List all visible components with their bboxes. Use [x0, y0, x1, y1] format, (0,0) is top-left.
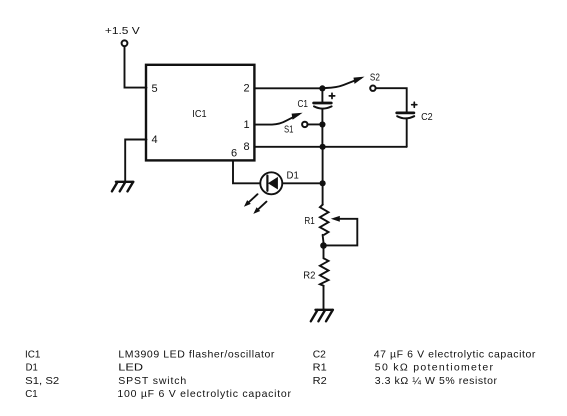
svg-text:3.3 kΩ ¼ W 5% resistor: 3.3 kΩ ¼ W 5% resistor [375, 375, 498, 387]
wire pin 6 to LED [233, 160, 260, 183]
svg-text:8: 8 [244, 141, 250, 153]
parts list column 1 [25, 348, 59, 400]
wire node C to node D [322, 150, 324, 180]
svg-text:6: 6 [231, 147, 237, 159]
ground bottom [311, 310, 333, 322]
parts list column 4 [374, 348, 536, 386]
svg-text:R1: R1 [304, 216, 315, 227]
switch S2 arrowhead [354, 77, 365, 84]
wire node E to R2 [323, 249, 325, 258]
wire LED to node D [282, 182, 319, 184]
ground left [112, 182, 133, 192]
svg-text:C1: C1 [298, 99, 309, 110]
svg-text:LED: LED [118, 362, 143, 374]
node E junction [320, 242, 327, 249]
wire pin 2 to node A [254, 87, 319, 89]
wire node D to R1 [322, 186, 324, 204]
C2 plus sign [412, 102, 417, 107]
switch S1 arrowhead [292, 113, 303, 120]
wire C2 to bottom rail [406, 120, 408, 147]
resistor R2 [320, 258, 329, 286]
svg-text:47 µF 6 V electrolytic capacit: 47 µF 6 V electrolytic capacitor [374, 348, 536, 360]
svg-text:4: 4 [152, 134, 158, 146]
parts list column 2 [117, 348, 291, 400]
svg-text:C1: C1 [25, 388, 38, 400]
R1 wiper wire [327, 219, 357, 246]
node A junction [319, 85, 325, 91]
svg-text:100 µF 6 V electrolytic capac: 100 µF 6 V electrolytic capacitor [117, 388, 291, 400]
wire pin 4 to ground [125, 140, 146, 182]
svg-text:IC1: IC1 [25, 348, 41, 360]
bottom rail (pin 8 wire) [254, 146, 406, 148]
parts list column 3 [313, 348, 327, 386]
supply terminal [122, 40, 128, 46]
switch S1 contact [302, 122, 307, 127]
wire R1 to node E [322, 235, 325, 243]
capacitor C2 [397, 113, 415, 118]
svg-text:R2: R2 [313, 375, 327, 387]
svg-text:C2: C2 [313, 348, 326, 360]
svg-text:50 kΩ potentiometer: 50 kΩ potentiometer [375, 362, 494, 374]
capacitor C1 [314, 103, 332, 109]
resistor R1 (potentiometer element) [320, 205, 329, 235]
svg-text:D1: D1 [287, 171, 299, 182]
wire supply to pin 5 [125, 47, 147, 88]
svg-text:5: 5 [152, 83, 158, 95]
LED D1 [260, 172, 282, 194]
svg-text:S2: S2 [370, 72, 380, 83]
node C junction on bottom rail [320, 144, 326, 150]
svg-text:S1: S1 [284, 125, 294, 136]
wire node A to C1 [321, 92, 323, 102]
node D junction [320, 180, 326, 186]
wire C1 to node B [321, 110, 323, 122]
svg-text:R1: R1 [313, 362, 327, 374]
svg-text:C2: C2 [421, 112, 433, 123]
svg-text:SPST switch: SPST switch [118, 375, 186, 387]
svg-text:LM3909 LED flasher/oscillator: LM3909 LED flasher/oscillator [118, 348, 275, 360]
svg-text:2: 2 [244, 83, 250, 95]
svg-text:IC1: IC1 [192, 109, 206, 120]
switch S2 contact [370, 86, 375, 91]
svg-text:1: 1 [244, 119, 250, 131]
wire S1 contact to node B [308, 123, 319, 125]
node B junction [319, 121, 325, 127]
wire S2 to C2 [376, 88, 407, 111]
C1 plus sign [329, 93, 334, 98]
R1 wiper arrowhead [331, 216, 340, 222]
wire R2 to ground [323, 286, 325, 309]
wire node B to node C [321, 128, 323, 144]
wire pin 1 to S1 blade [254, 114, 298, 124]
IC1 LM3909 box [146, 65, 254, 161]
svg-text:R2: R2 [303, 271, 315, 282]
svg-text:D1: D1 [26, 362, 38, 374]
LED light arrows [244, 194, 267, 214]
switch S2 blade [326, 78, 361, 88]
svg-text:+1.5 V: +1.5 V [105, 26, 140, 37]
svg-text:S1, S2: S1, S2 [25, 375, 59, 387]
